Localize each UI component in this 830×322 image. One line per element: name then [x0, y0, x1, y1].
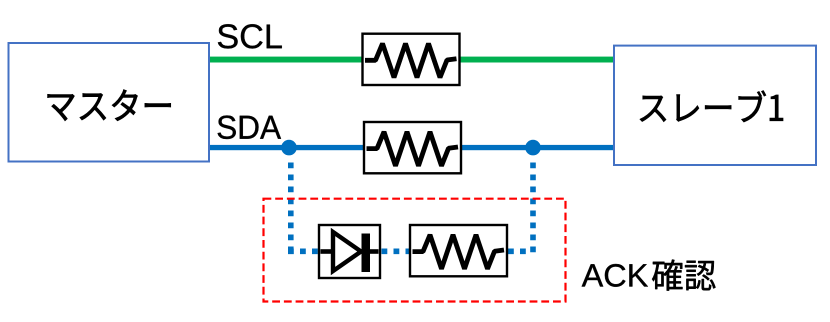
wire dotted right (node B down to R3): [508, 163, 533, 254]
slave block: [614, 46, 816, 165]
wire SCL (green bus line): [209, 57, 614, 63]
wire dotted left (node A down to diode): [288, 163, 318, 254]
master block: [9, 43, 210, 162]
diode D1: [319, 225, 380, 278]
resistor R2 on SDA: [364, 122, 461, 173]
label SDA: [218, 116, 281, 140]
label マスター: [48, 90, 171, 121]
ACK box (red dashed): [264, 199, 566, 302]
label スレーブ1: [640, 91, 783, 122]
label ACK確認: [582, 264, 648, 287]
wire SDA (blue bus line): [209, 145, 614, 150]
resistor R3: [410, 225, 507, 276]
wire dotted middle (diode to R3): [382, 249, 410, 255]
node B (right junction on SDA): [525, 140, 541, 156]
label SCL: [218, 24, 282, 48]
node A (left junction on SDA): [281, 140, 297, 156]
resistor R1 on SCL: [363, 34, 460, 85]
